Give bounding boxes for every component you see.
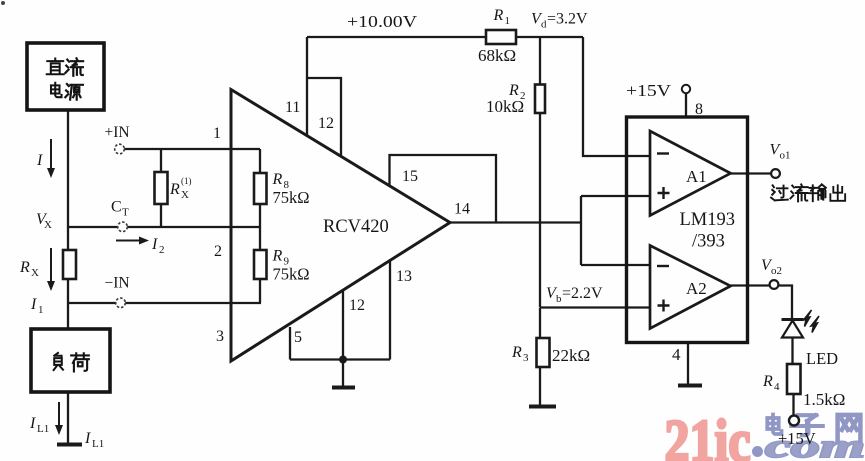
svg-text:+IN: +IN: [105, 124, 130, 141]
svg-text:8: 8: [695, 101, 703, 118]
svg-text:11: 11: [285, 99, 300, 116]
svg-text:LM193: LM193: [680, 210, 736, 230]
svg-text:X: X: [44, 219, 52, 231]
svg-text:I: I: [29, 415, 36, 432]
svg-text:1.5kΩ: 1.5kΩ: [803, 390, 845, 409]
svg-text:9: 9: [284, 256, 290, 268]
svg-text:I: I: [84, 430, 91, 447]
svg-text:2: 2: [159, 244, 165, 256]
svg-text:T: T: [122, 207, 129, 219]
svg-text:I: I: [151, 236, 158, 253]
svg-text:o2: o2: [771, 265, 782, 277]
svg-text:R: R: [511, 344, 522, 361]
svg-text:+15V: +15V: [778, 429, 816, 448]
svg-text:R: R: [508, 82, 519, 99]
svg-text:22kΩ: 22kΩ: [552, 346, 590, 365]
svg-text:L1: L1: [37, 423, 49, 435]
svg-text:A2: A2: [686, 279, 707, 298]
svg-text:L1: L1: [92, 438, 104, 450]
svg-text:=2.2V: =2.2V: [562, 285, 603, 302]
svg-text:13: 13: [396, 268, 412, 285]
svg-text:R: R: [272, 171, 283, 188]
svg-text:R: R: [272, 248, 283, 265]
svg-text:+15V: +15V: [626, 81, 671, 100]
svg-text:RCV420: RCV420: [323, 217, 389, 237]
svg-text:1: 1: [213, 125, 221, 142]
svg-text:21ic: 21ic: [665, 408, 751, 461]
svg-text:1: 1: [505, 15, 511, 27]
svg-text:C: C: [111, 199, 122, 216]
svg-text:2: 2: [520, 90, 526, 102]
svg-text:2: 2: [214, 243, 222, 260]
svg-text:R: R: [762, 373, 773, 390]
svg-text:10kΩ: 10kΩ: [486, 97, 524, 116]
svg-text:3: 3: [523, 352, 529, 364]
svg-text:4: 4: [672, 345, 681, 364]
svg-text:12: 12: [349, 297, 365, 314]
svg-text:A1: A1: [686, 167, 707, 186]
svg-text:15: 15: [402, 168, 418, 185]
svg-text:I: I: [36, 152, 43, 169]
svg-text:12: 12: [318, 115, 334, 132]
svg-text:75kΩ: 75kΩ: [273, 188, 310, 207]
svg-text:LED: LED: [806, 349, 838, 368]
svg-text:R: R: [169, 181, 180, 198]
svg-text:3: 3: [216, 328, 224, 345]
svg-text:1: 1: [38, 304, 44, 316]
svg-text:=3.2V: =3.2V: [547, 11, 588, 28]
svg-text:5: 5: [294, 329, 302, 346]
svg-text:X: X: [31, 267, 39, 279]
svg-text:−IN: −IN: [105, 275, 130, 292]
svg-text:R: R: [493, 7, 504, 24]
svg-text:4: 4: [774, 381, 780, 393]
svg-text:14: 14: [454, 201, 470, 218]
svg-text:75kΩ: 75kΩ: [273, 265, 310, 284]
svg-text:X: X: [181, 189, 189, 201]
svg-text:I: I: [30, 296, 37, 313]
svg-text:(1): (1): [181, 176, 192, 186]
svg-text:+10.00V: +10.00V: [347, 12, 418, 31]
svg-text:/393: /393: [692, 232, 725, 252]
svg-text:R: R: [19, 259, 30, 276]
svg-text:68kΩ: 68kΩ: [478, 46, 516, 65]
svg-text:o1: o1: [780, 150, 791, 162]
svg-text:8: 8: [284, 179, 290, 191]
